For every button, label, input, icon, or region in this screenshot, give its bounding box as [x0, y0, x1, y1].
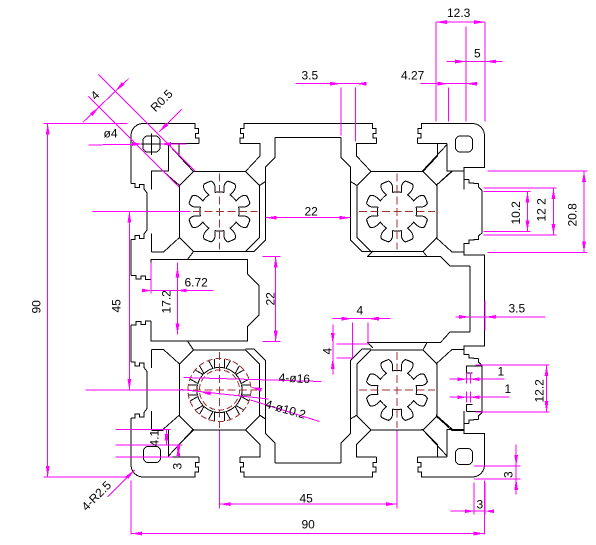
svg-text:3.5: 3.5: [302, 69, 319, 83]
svg-text:5: 5: [474, 47, 481, 61]
svg-text:3: 3: [502, 471, 516, 478]
svg-text:4: 4: [357, 304, 364, 318]
svg-text:ø4: ø4: [104, 127, 118, 141]
svg-text:22: 22: [264, 292, 278, 306]
svg-text:4: 4: [321, 348, 335, 355]
svg-text:1: 1: [498, 365, 505, 379]
svg-text:45: 45: [300, 492, 314, 506]
svg-text:3: 3: [171, 463, 185, 470]
svg-text:12 2: 12 2: [535, 198, 549, 222]
svg-text:17.2: 17.2: [160, 290, 174, 314]
svg-text:1: 1: [505, 382, 512, 396]
svg-text:90: 90: [302, 518, 316, 532]
svg-text:10.2: 10.2: [509, 201, 523, 225]
svg-text:45: 45: [110, 299, 124, 313]
svg-text:12.3: 12.3: [447, 6, 471, 20]
svg-text:12.2: 12.2: [533, 379, 547, 403]
svg-text:3.5: 3.5: [509, 302, 526, 316]
svg-text:20.8: 20.8: [566, 203, 580, 227]
svg-text:4-ø16: 4-ø16: [278, 371, 310, 387]
svg-text:22: 22: [305, 205, 319, 219]
svg-text:6.72: 6.72: [185, 276, 209, 290]
svg-text:4.27: 4.27: [401, 69, 425, 83]
svg-text:3: 3: [477, 498, 484, 512]
svg-text:90: 90: [30, 300, 44, 314]
svg-text:4.1: 4.1: [148, 429, 162, 446]
